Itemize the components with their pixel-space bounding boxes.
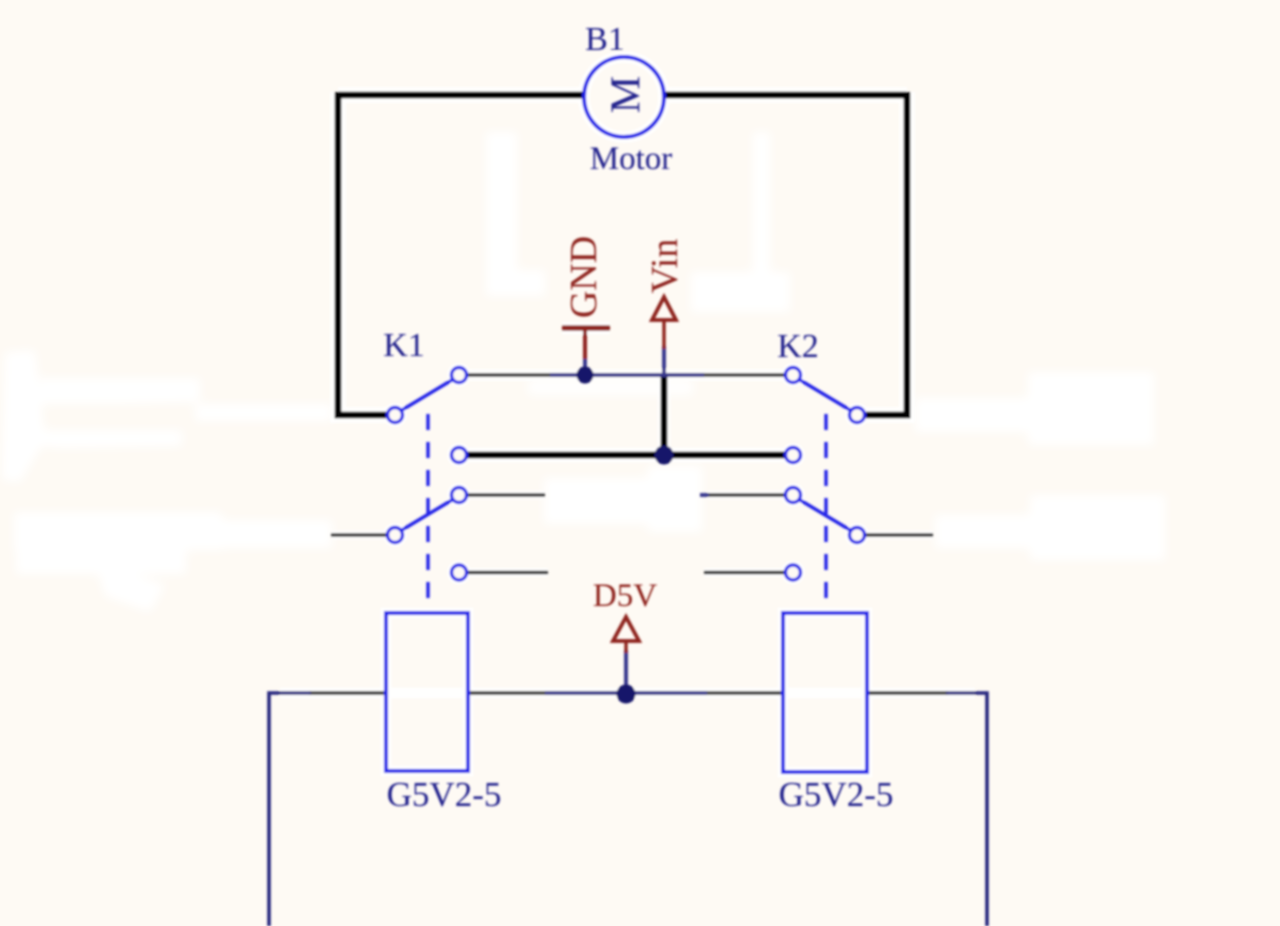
svg-text:K1: K1 xyxy=(383,327,425,364)
svg-text:K2: K2 xyxy=(777,328,819,365)
svg-text:B1: B1 xyxy=(585,21,625,58)
svg-text:G5V2-5: G5V2-5 xyxy=(387,775,502,814)
svg-text:G5V2-5: G5V2-5 xyxy=(779,775,894,814)
svg-text:Motor: Motor xyxy=(590,141,673,177)
svg-text:D5V: D5V xyxy=(593,578,657,614)
svg-text:GND: GND xyxy=(563,236,605,318)
svg-text:Vin: Vin xyxy=(644,239,686,294)
svg-text:M: M xyxy=(604,76,650,113)
